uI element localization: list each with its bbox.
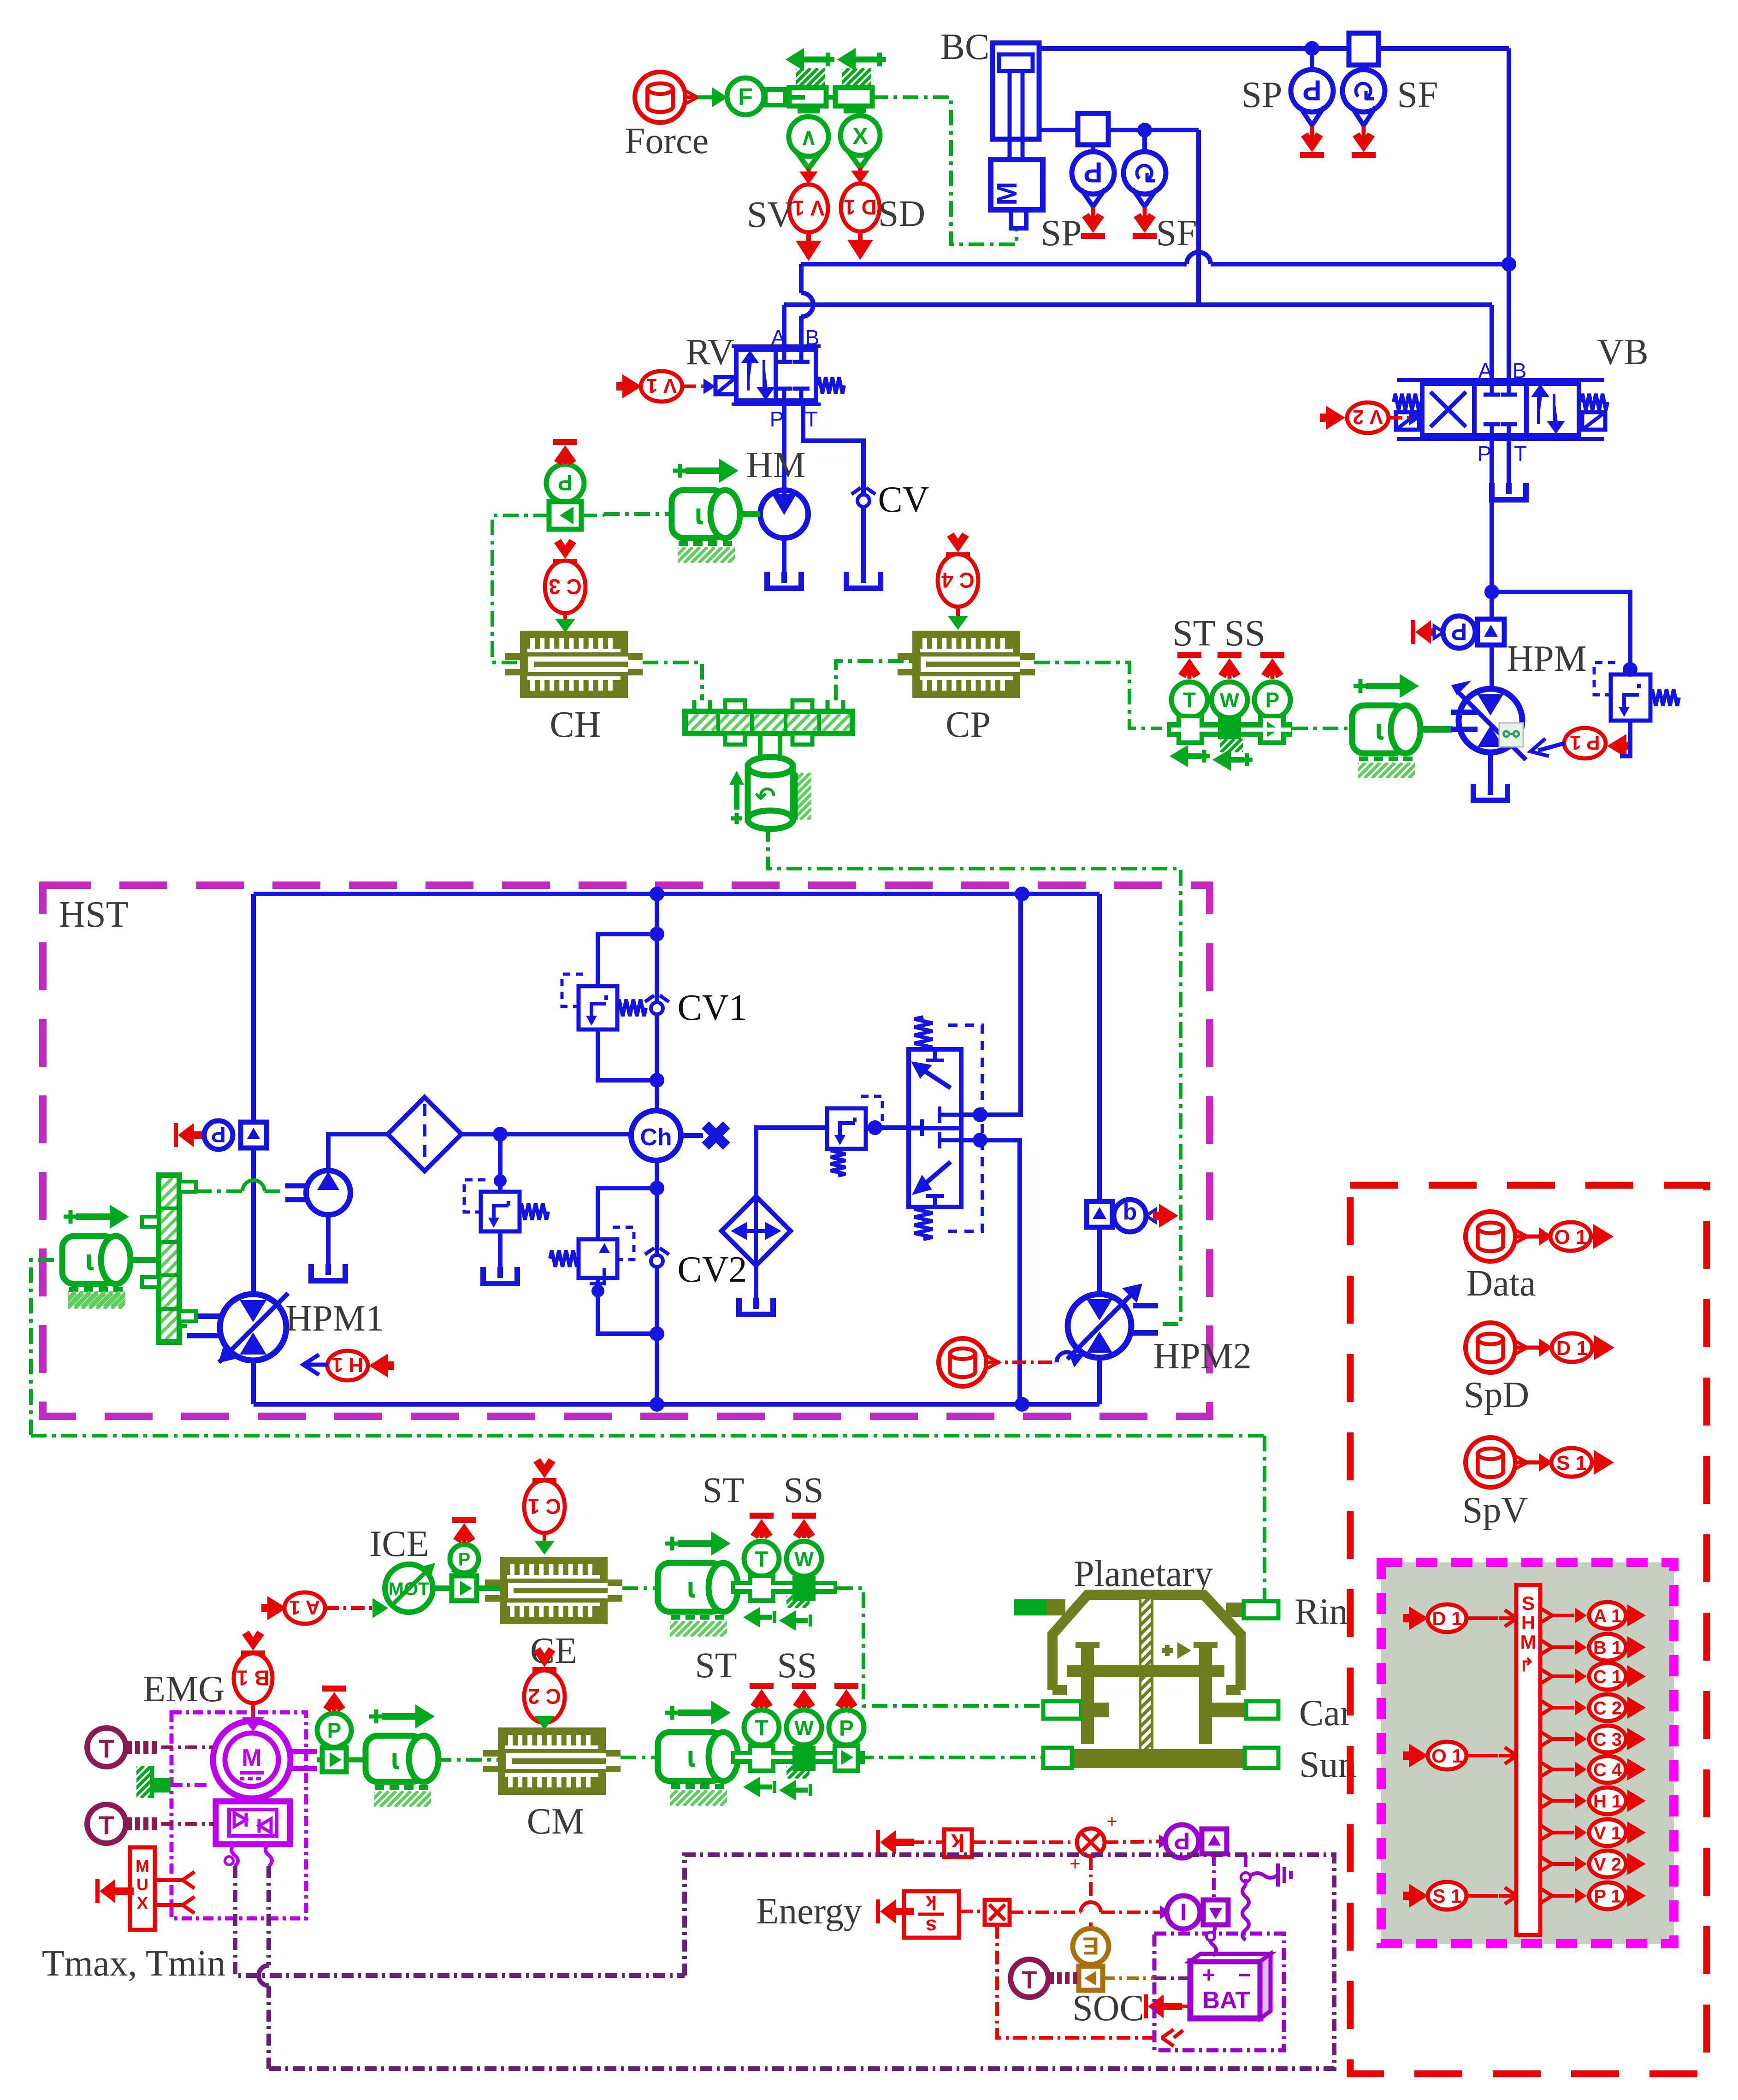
SHM output P 1 <box>1540 1882 1646 1909</box>
svg-text:M: M <box>1520 1631 1537 1653</box>
svg-text:E: E <box>1082 1932 1099 1960</box>
signal multiplier chain vertical <box>1089 1856 1093 1928</box>
svg-text:SV: SV <box>747 195 794 235</box>
SHM output C 3 <box>1540 1726 1646 1752</box>
svg-text:C 3: C 3 <box>549 574 582 598</box>
svg-text:k: k <box>925 1891 937 1914</box>
labels ST SS (ICE row) <box>702 1470 823 1510</box>
svg-text:P: P <box>1302 74 1321 106</box>
wire flush valve down <box>961 1133 1020 1404</box>
svg-text:P: P <box>211 1122 226 1147</box>
svg-text:X: X <box>137 1893 148 1912</box>
brake cylinder BC <box>940 27 1043 228</box>
SHM output H 1 <box>1540 1787 1646 1814</box>
svg-text:C 2: C 2 <box>528 1684 561 1708</box>
svg-text:HPM1: HPM1 <box>285 1298 384 1339</box>
signal ICE row to carrier <box>837 1588 1043 1706</box>
junction <box>650 887 664 901</box>
HPM1 pump/motor <box>187 1293 384 1363</box>
signal tag C3 <box>545 539 585 633</box>
svg-text:SF: SF <box>1397 75 1438 115</box>
signal square on BC top wire <box>1349 33 1378 65</box>
output panel boundary <box>1350 1185 1707 2074</box>
vehicle shaft <box>760 734 780 760</box>
HST centre line upper <box>655 894 659 1111</box>
junction <box>650 927 664 941</box>
svg-text:W: W <box>794 1548 814 1571</box>
svg-text:+: + <box>1106 1811 1117 1832</box>
electric boundary box <box>269 1855 1334 2069</box>
wire riser BC-VB B <box>1507 48 1511 384</box>
svg-text:P 1: P 1 <box>1570 731 1600 754</box>
sensor shaft bar (ICE row) <box>731 1576 837 1631</box>
multiplexer MUX <box>95 1847 195 1930</box>
pressure sensor P (HPM) <box>1411 616 1504 648</box>
svg-text:HPM: HPM <box>1507 639 1586 679</box>
speed sensor SF (top) <box>1342 65 1438 158</box>
svg-text:SOC: SOC <box>1072 1988 1144 2029</box>
svg-text:P: P <box>839 1716 854 1740</box>
current sensor I (battery) <box>1167 1896 1228 1929</box>
hydraulic motor HM pump circle <box>746 445 808 538</box>
labels ST SS (HPM row) <box>1172 613 1265 654</box>
EMG ground <box>104 1766 210 1798</box>
wire VB-P down to HPM <box>1490 435 1494 690</box>
speed sensor W (ICE row) <box>786 1513 822 1579</box>
svg-text:P: P <box>1265 688 1280 712</box>
signal shaft to pump (hop) <box>196 1180 285 1191</box>
svg-text:H: H <box>1521 1612 1535 1633</box>
junction <box>650 1073 664 1088</box>
hydraulic pump/motor HPM <box>1451 639 1587 800</box>
junction <box>1623 662 1638 677</box>
svg-text:O 1: O 1 <box>1555 1226 1587 1248</box>
signal to current sensor (hop) <box>1010 1902 1171 1919</box>
HST centre line lower <box>655 1160 659 1404</box>
svg-text:B 1: B 1 <box>236 1666 270 1690</box>
rotary load (ICE row) <box>654 1532 751 1637</box>
SHM output B 1 <box>1540 1634 1646 1661</box>
speed sensor W (HPM row) <box>1212 652 1247 722</box>
svg-text:P: P <box>458 1549 471 1569</box>
svg-text:↶: ↶ <box>754 782 775 810</box>
HST top wire <box>254 892 1100 896</box>
shaft block to HPM1 <box>179 1316 210 1326</box>
SHM output A 1 <box>1540 1602 1646 1629</box>
svg-text:ST: ST <box>695 1645 737 1685</box>
signal tag H1 <box>303 1351 394 1380</box>
SHM output C 2 <box>1540 1694 1646 1721</box>
svg-text:C 1: C 1 <box>1593 1667 1622 1687</box>
HPM2 pump/motor <box>1067 1284 1252 1377</box>
tank under HM <box>767 538 801 588</box>
signal tag A1 <box>261 1592 388 1624</box>
svg-text:Car: Car <box>1299 1693 1353 1733</box>
signal tag B1 <box>234 1631 272 1722</box>
HST drive motor <box>53 1205 149 1309</box>
wire RV-P to motor HM <box>782 401 786 490</box>
signal tag C2 <box>524 1647 565 1730</box>
junction <box>1015 1397 1029 1412</box>
check valve CV1 <box>645 988 747 1028</box>
gauge Ch <box>631 1111 681 1160</box>
signal tag SV (V 1) <box>747 169 828 261</box>
svg-text:S: S <box>1522 1592 1535 1614</box>
svg-text:D 1: D 1 <box>1432 1608 1462 1629</box>
svg-text:SF: SF <box>1156 213 1197 254</box>
svg-text:S 1: S 1 <box>1432 1885 1461 1907</box>
svg-text:ICE: ICE <box>370 1524 429 1564</box>
signal tag C1 <box>524 1458 565 1555</box>
junction <box>493 1127 508 1142</box>
rotary load of HM <box>662 459 760 563</box>
rotary load of HPM <box>1342 674 1452 778</box>
svg-text:V 1: V 1 <box>792 196 824 220</box>
svg-text:SpV: SpV <box>1462 1490 1528 1531</box>
svg-text:C 3: C 3 <box>1593 1729 1622 1750</box>
clutch CM <box>483 1727 621 1842</box>
SHM output V 2 <box>1540 1851 1646 1877</box>
svg-text:VB: VB <box>1597 332 1648 373</box>
HST bottom wire <box>254 1402 1100 1407</box>
svg-text:C 4: C 4 <box>1593 1760 1622 1780</box>
battery BAT <box>1190 1954 1271 2018</box>
svg-text:U: U <box>136 1875 148 1894</box>
svg-text:+: + <box>1202 1963 1215 1988</box>
wire RV-A up <box>782 305 786 347</box>
svg-text:ɩ: ɩ <box>1375 713 1383 746</box>
signal tag P1 <box>1531 728 1632 758</box>
labels ST SS (CM row) <box>695 1645 817 1685</box>
SHM output C 1 <box>1540 1663 1646 1690</box>
signal multiplier feedback <box>997 1925 1183 2046</box>
check valve CV2 <box>645 1248 747 1290</box>
HST shaft block <box>0 1175 493 1342</box>
svg-text:CM: CM <box>527 1801 585 1842</box>
svg-text:T: T <box>1514 442 1527 466</box>
signal source Force (data icon) <box>625 72 709 161</box>
svg-text:EMG: EMG <box>143 1669 225 1710</box>
junction <box>650 1397 664 1412</box>
directional valve RV <box>686 325 844 431</box>
svg-text:P: P <box>327 1719 342 1743</box>
svg-text:∧: ∧ <box>800 124 817 150</box>
svg-text:P: P <box>1174 1827 1190 1854</box>
signal SOC output <box>1144 1994 1188 2018</box>
pressure sensor P (HST left) <box>174 1121 266 1149</box>
shaft signal HM to P square <box>581 514 674 515</box>
power sensor P (CM row) <box>829 1683 864 1748</box>
svg-text:F: F <box>738 84 753 111</box>
svg-text:SP: SP <box>1041 213 1082 254</box>
svg-text:BC: BC <box>940 27 990 67</box>
spring-damper SD stage <box>823 48 901 113</box>
svg-text:M: M <box>136 1857 149 1875</box>
EMG boundary box <box>171 1712 306 1918</box>
junction <box>1305 41 1319 56</box>
relief valve (flush) <box>827 1096 909 1176</box>
svg-text:P: P <box>558 470 573 495</box>
EMG converter <box>216 1798 290 1844</box>
displacement sensor X <box>840 116 880 168</box>
signal down to planetary ring <box>1247 1436 1265 1607</box>
junction <box>1137 123 1152 137</box>
svg-text:Force: Force <box>625 121 709 161</box>
svg-text:T: T <box>99 1734 114 1763</box>
signal HST bottom run <box>31 1434 1265 1437</box>
svg-text:M: M <box>242 1745 261 1771</box>
temperature sensor T (EMG lower) <box>87 1804 214 1843</box>
SOC sensor E <box>1073 1928 1109 1990</box>
svg-text:SD: SD <box>878 194 925 234</box>
power sensor P (battery) <box>1105 1825 1227 1858</box>
flush filter <box>721 1196 791 1266</box>
svg-text:P: P <box>1478 442 1492 466</box>
SHM block <box>1516 1585 1540 1935</box>
svg-text:A: A <box>1478 359 1493 383</box>
data source SpV <box>1462 1437 1614 1531</box>
svg-text:Energy: Energy <box>756 1891 862 1932</box>
svg-text:B: B <box>1513 359 1527 383</box>
wire line B (RV-A to VB-A) <box>784 302 1492 307</box>
svg-text:−: − <box>1238 1963 1251 1988</box>
wire VB-A drop <box>1490 305 1494 384</box>
wire line A (RV-B to VB-B) <box>801 252 1509 264</box>
relief bypass of CV2 <box>550 1188 657 1334</box>
signal CM to load <box>621 1756 655 1759</box>
signal row to HPM rotary load <box>1292 727 1353 730</box>
svg-text:A 1: A 1 <box>290 1596 320 1619</box>
svg-text:X: X <box>852 123 868 149</box>
svg-text:B 1: B 1 <box>1593 1638 1622 1658</box>
svg-text:C 4: C 4 <box>941 568 975 592</box>
svg-text:CV1: CV1 <box>677 988 747 1028</box>
svg-text:SS: SS <box>777 1645 817 1685</box>
svg-text:T: T <box>1022 1966 1037 1994</box>
velocity sensor V <box>789 117 828 169</box>
svg-text:C 2: C 2 <box>1593 1698 1622 1718</box>
junction HPM/VB <box>1484 585 1499 599</box>
EMG feed line 1 <box>235 1866 685 1976</box>
signal junction to CP <box>836 661 912 700</box>
signal CM row to sun <box>858 1756 1043 1759</box>
torque sensor T (HPM row) <box>1171 652 1207 722</box>
wire RV-B up w/ bridge <box>801 264 813 347</box>
svg-text:O 1: O 1 <box>1431 1745 1463 1767</box>
data source SpD <box>1464 1323 1614 1415</box>
svg-text:ST: ST <box>702 1470 744 1510</box>
signal CE to load <box>622 1586 655 1590</box>
shaft sensor P (HM line) <box>546 439 584 529</box>
svg-text:T: T <box>99 1810 114 1840</box>
signal tag V1 <box>616 371 715 402</box>
SHM input O 1 <box>1403 1742 1517 1769</box>
signal square on BC mid wire <box>1078 113 1108 145</box>
electric motor-generator <box>213 1717 317 1798</box>
svg-text:ST: ST <box>1172 613 1215 654</box>
multiplier block <box>959 1900 1010 1925</box>
signal tag C4 <box>938 532 978 630</box>
svg-text:W: W <box>1220 689 1239 712</box>
svg-text:SP: SP <box>1241 75 1283 115</box>
svg-text:SpD: SpD <box>1464 1375 1529 1415</box>
spring-damper SV stage <box>777 48 855 113</box>
signal tag V2 <box>1320 402 1421 433</box>
wire flush valve up <box>961 894 1021 1122</box>
svg-text:A 1: A 1 <box>1594 1606 1622 1626</box>
wire BC mid port <box>1039 130 1199 305</box>
svg-text:s: s <box>926 1915 937 1938</box>
svg-text:M: M <box>991 182 1023 206</box>
label EMG <box>143 1669 225 1710</box>
converter output squiggles <box>225 1844 272 1866</box>
speed sensor SF (cyl) <box>1123 130 1197 254</box>
signal motor out of HST <box>31 1260 54 1436</box>
rotary load (CM row) <box>654 1701 751 1806</box>
tank under charge pump <box>311 1215 345 1281</box>
signal E to battery <box>1103 1976 1188 1980</box>
svg-text:↱: ↱ <box>1519 1655 1535 1675</box>
svg-text:⚯: ⚯ <box>1502 723 1520 746</box>
svg-text:HM: HM <box>746 445 806 485</box>
svg-text:Rin: Rin <box>1295 1591 1348 1632</box>
signal tag SD (D 1) <box>841 168 925 260</box>
flushing valve <box>909 1017 982 1239</box>
svg-text:C 1: C 1 <box>528 1494 561 1518</box>
charge filter <box>388 1097 461 1171</box>
svg-text:P 1: P 1 <box>1594 1886 1621 1906</box>
wire VB-T tank <box>1492 435 1526 500</box>
svg-text:H 1: H 1 <box>1593 1791 1622 1811</box>
svg-text:Data: Data <box>1466 1263 1536 1304</box>
svg-text:I: I <box>1180 1898 1187 1925</box>
sensor shaft bar (HPM row) <box>1167 716 1292 771</box>
wire BC top port <box>1039 46 1509 51</box>
label Tmax Tmin <box>42 1943 225 1984</box>
svg-text:B: B <box>805 325 820 349</box>
rotary load (EMG) <box>358 1704 455 1807</box>
HPM1 ports <box>253 894 254 1404</box>
svg-text:RV: RV <box>686 332 734 373</box>
junction <box>650 1181 664 1195</box>
svg-text:T: T <box>1183 688 1196 712</box>
relief bypass of CV1 <box>562 934 657 1080</box>
sensor shaft bar (CM row) <box>731 1746 865 1800</box>
svg-text:D 1: D 1 <box>1556 1337 1588 1360</box>
svg-text:ɩ: ɩ <box>687 1571 695 1604</box>
tank under CV <box>846 572 881 588</box>
signal P square to clutch CH <box>492 515 549 663</box>
relief valve (HPM) <box>1594 663 1679 756</box>
svg-text:V 1: V 1 <box>1594 1823 1621 1843</box>
SHM input D 1 <box>1403 1604 1517 1632</box>
directional valve VB <box>1394 332 1649 466</box>
svg-text:P: P <box>1083 156 1102 188</box>
svg-text:CV2: CV2 <box>677 1249 747 1290</box>
svg-text:P: P <box>770 407 784 431</box>
svg-text:ɩ: ɩ <box>687 1740 695 1773</box>
SHM panel <box>1381 1562 1674 1944</box>
svg-text:↻: ↻ <box>1133 156 1157 188</box>
clutch CH <box>505 631 643 745</box>
signal wire X to brake cylinder <box>872 97 1017 244</box>
svg-text:k: k <box>951 1829 965 1857</box>
svg-text:CH: CH <box>550 704 601 745</box>
planetary gear <box>971 1554 1481 1785</box>
signal CH to shaft junction <box>643 663 702 700</box>
signal CP to HPM shaft row <box>1034 663 1162 728</box>
temperature sensor T (battery) <box>1011 1959 1077 1997</box>
svg-text:Tmax, Tmin: Tmax, Tmin <box>42 1943 225 1984</box>
svg-text:SS: SS <box>784 1470 824 1510</box>
battery boundary <box>1154 1934 1284 2050</box>
wire HPM to relief <box>1492 592 1630 674</box>
speed sensor SP (cyl) <box>1041 145 1114 254</box>
svg-text:BAT: BAT <box>1202 1987 1250 2014</box>
svg-text:ɩ: ɩ <box>85 1243 94 1277</box>
multiplier node <box>972 1811 1117 1874</box>
svg-text:Ch: Ch <box>640 1124 672 1151</box>
HST right riser upper <box>1097 894 1102 1201</box>
svg-text:S 1: S 1 <box>1556 1452 1587 1474</box>
vehicle rotary load <box>729 757 899 829</box>
svg-text:ɩ: ɩ <box>391 1742 399 1775</box>
HPM2 ports <box>1097 1227 1102 1404</box>
svg-text:V 2: V 2 <box>1353 406 1383 428</box>
svg-text:A: A <box>771 325 786 349</box>
svg-text:ɩ: ɩ <box>695 497 703 531</box>
svg-text:q: q <box>1123 1202 1137 1228</box>
torque sensor T (ICE row) <box>744 1513 779 1579</box>
wire Force to F sensor <box>686 87 727 107</box>
svg-text:D 1: D 1 <box>844 195 877 219</box>
engine ICE <box>370 1524 435 1612</box>
svg-text:T: T <box>805 407 818 431</box>
svg-text:CP: CP <box>946 704 991 745</box>
signal EMG load to CM <box>436 1758 498 1762</box>
wire filter to relief3 <box>739 1128 827 1314</box>
junction <box>650 1326 664 1341</box>
gain block K <box>876 1829 972 1857</box>
SHM input S 1 <box>1403 1882 1517 1910</box>
charge pump <box>285 1134 388 1215</box>
HST boundary box <box>43 885 1210 1416</box>
speed sensor W (CM row) <box>786 1683 822 1748</box>
relief valve (charge) <box>464 1134 548 1284</box>
sensor P (ICE) <box>433 1517 500 1601</box>
svg-text:T: T <box>755 1716 768 1740</box>
shaft junction block <box>671 700 881 745</box>
svg-text:P: P <box>1451 618 1467 645</box>
svg-text:H 1: H 1 <box>332 1354 363 1376</box>
svg-text:V 1: V 1 <box>646 374 677 397</box>
svg-text:HST: HST <box>59 894 128 935</box>
clutch CP <box>898 631 1035 745</box>
torque sensor T (CM row) <box>744 1683 779 1748</box>
SHM output C 4 <box>1540 1756 1646 1783</box>
check valve CV <box>851 475 929 572</box>
svg-text:Planetary: Planetary <box>1074 1554 1213 1594</box>
wire RV-T to CV <box>803 401 863 475</box>
svg-text:CV: CV <box>878 479 929 520</box>
power sensor P (HPM row) <box>1254 652 1290 722</box>
flow sensor q (HPM2) <box>1087 1200 1178 1232</box>
SHM output V 1 <box>1540 1819 1646 1846</box>
HST left riser <box>251 894 256 1404</box>
svg-text:T: T <box>755 1547 768 1572</box>
svg-text:↻: ↻ <box>1352 74 1376 106</box>
force sensor F <box>727 78 764 115</box>
